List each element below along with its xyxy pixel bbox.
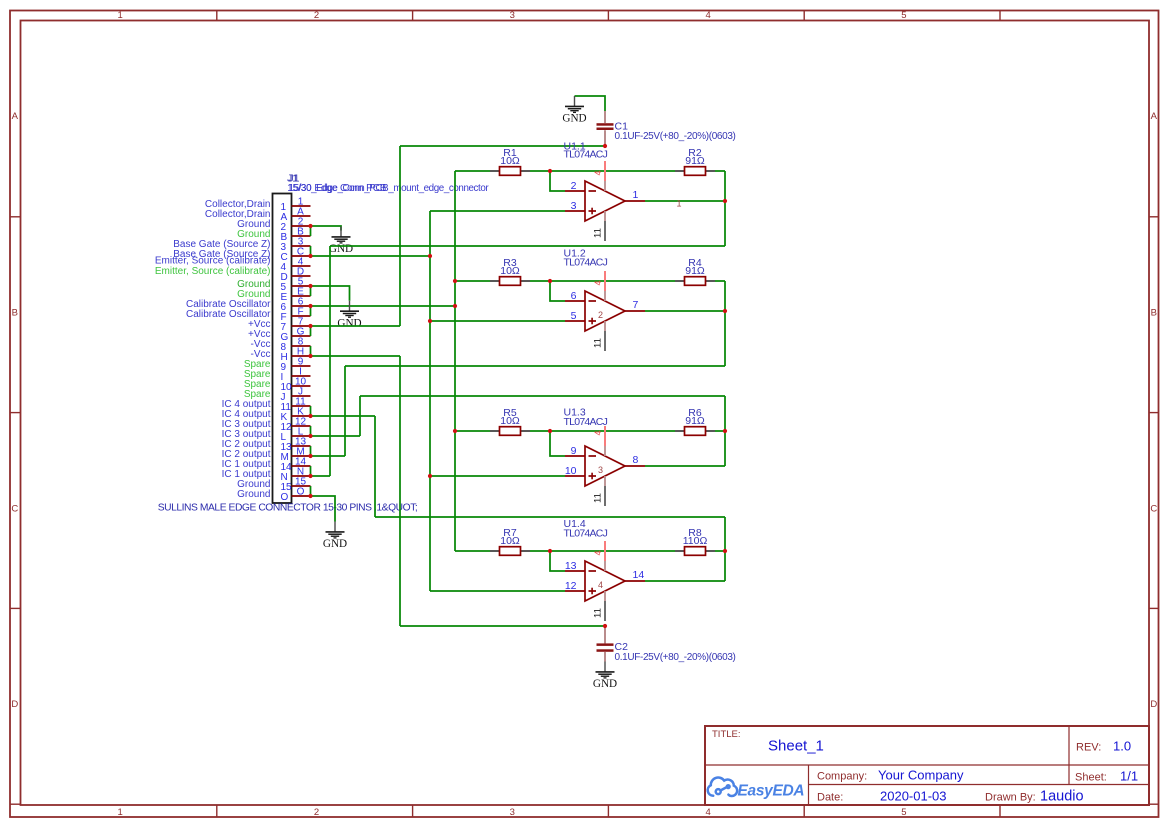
- wire U1.1 output: [645, 200, 725, 202]
- svg-text:Emitter, Source (calibrate): Emitter, Source (calibrate): [155, 256, 271, 267]
- svg-text:1/1: 1/1: [1120, 769, 1138, 784]
- svg-text:O: O: [297, 487, 305, 498]
- connector J1 pin 9: [281, 357, 311, 373]
- svg-text:4: 4: [593, 550, 603, 555]
- connector J1 pin F: [281, 307, 311, 323]
- wire R4 right: [715, 280, 725, 282]
- svg-text:91Ω: 91Ω: [685, 155, 705, 167]
- wire R3 row left: [455, 280, 490, 282]
- wire pin6 east: [311, 305, 456, 307]
- wire to U1.3 noninverting input: [430, 475, 565, 477]
- wire R2 right: [715, 170, 725, 172]
- wire pinM east: [311, 455, 346, 457]
- svg-text:GND: GND: [323, 538, 347, 550]
- resistor R8: [675, 547, 715, 556]
- svg-text:Your Company: Your Company: [878, 768, 964, 783]
- junction: [548, 549, 552, 553]
- wire pin5-pinE: [310, 286, 312, 296]
- svg-text:GND: GND: [329, 243, 353, 255]
- wire U1.2 output: [645, 310, 725, 312]
- wire pin11-pinK: [310, 406, 312, 416]
- junction: [308, 434, 312, 438]
- svg-text:5: 5: [571, 310, 577, 322]
- capacitor C2: [597, 626, 614, 662]
- junction: [548, 429, 552, 433]
- wire R7 row left: [455, 550, 490, 552]
- junction: [308, 224, 312, 228]
- wire pin12-pinL: [310, 426, 312, 436]
- connector J1 pin A: [281, 207, 311, 223]
- wire to U1.1 inverting input: [550, 171, 565, 191]
- svg-text:2: 2: [314, 10, 319, 21]
- svg-text:91Ω: 91Ω: [685, 265, 705, 277]
- ground GND1 (pins 2/B): [332, 227, 351, 243]
- U1.3 pin 11 (V-): [604, 476, 606, 506]
- connector J1 pin 13: [281, 437, 311, 453]
- svg-text:5: 5: [901, 10, 906, 21]
- wire pin14-pinN: [310, 466, 312, 476]
- svg-text:9: 9: [571, 445, 577, 457]
- wire pin13-pinM: [310, 446, 312, 456]
- wire feedback U1.2: [724, 281, 726, 366]
- wire R5 row left: [455, 430, 490, 432]
- wire R6 right: [715, 430, 725, 432]
- svg-text:5: 5: [901, 807, 906, 818]
- ruler tick bottom: [216, 805, 218, 817]
- ruler tick right: [1149, 803, 1159, 805]
- connector J1 pin 1: [281, 197, 311, 213]
- connector J1 pin 5: [281, 277, 311, 293]
- junction: [308, 284, 312, 288]
- junction: [603, 624, 607, 628]
- ruler tick left: [10, 216, 21, 218]
- ground GND3 (pins 15/O): [326, 522, 345, 538]
- ruler tick top: [607, 11, 609, 21]
- ground GND2 (pins 5/E): [340, 301, 359, 317]
- connector J1 pin G: [281, 327, 311, 343]
- svg-text:O: O: [281, 492, 289, 503]
- U1.4 pin 11 (V-): [604, 591, 606, 621]
- ruler tick top: [412, 11, 414, 21]
- svg-text:110Ω: 110Ω: [683, 535, 708, 547]
- svg-text:1: 1: [118, 10, 123, 21]
- junction: [548, 279, 552, 283]
- junction: [603, 144, 607, 148]
- svg-text:10Ω: 10Ω: [500, 155, 520, 167]
- wire to U1.2 noninverting input: [430, 320, 565, 322]
- svg-text:TITLE:: TITLE:: [712, 729, 741, 740]
- svg-text:SULLINS MALE EDGE CONNECTOR 15: SULLINS MALE EDGE CONNECTOR 15-30 PINS .…: [158, 503, 418, 514]
- svg-text:91Ω: 91Ω: [685, 415, 705, 427]
- svg-text:GND: GND: [562, 113, 586, 125]
- svg-text:TL074ACJ: TL074ACJ: [564, 257, 608, 269]
- U1.2 pin 4 (V+): [604, 271, 606, 301]
- junction: [428, 474, 432, 478]
- svg-text:10: 10: [565, 465, 577, 477]
- svg-text:4: 4: [705, 807, 710, 818]
- svg-text:Sheet:: Sheet:: [1075, 772, 1107, 784]
- svg-text:2: 2: [571, 180, 577, 192]
- svg-text:0.1UF-25V(+80_-20%)(0603): 0.1UF-25V(+80_-20%)(0603): [615, 652, 736, 663]
- svg-text:GND: GND: [593, 678, 617, 690]
- svg-text:TL074ACJ: TL074ACJ: [564, 149, 608, 161]
- wire pinO to GND: [311, 496, 336, 522]
- junction: [723, 429, 727, 433]
- svg-text:3: 3: [510, 10, 515, 21]
- svg-text:1: 1: [633, 189, 639, 201]
- svg-text:A: A: [12, 111, 19, 122]
- junction: [308, 454, 312, 458]
- wire to U1.4 noninverting input: [430, 590, 565, 592]
- junction: [308, 494, 312, 498]
- svg-text:4: 4: [593, 280, 603, 285]
- connector J1 pin C: [281, 247, 311, 263]
- resistor R7: [490, 547, 530, 556]
- connector J1 pin E: [281, 287, 311, 303]
- connector J1 pin I: [281, 367, 311, 383]
- wire U1.4 output: [645, 580, 725, 582]
- svg-text:REV:: REV:: [1076, 742, 1101, 754]
- wire feedback U1.4: [724, 517, 726, 581]
- capacitor C1: [597, 111, 614, 146]
- wire R1-R2: [530, 170, 675, 172]
- wire -Vcc to C2: [400, 625, 605, 627]
- svg-text:Emitter, Source (calibrate): Emitter, Source (calibrate): [155, 266, 271, 277]
- resistor R2: [675, 167, 715, 176]
- svg-text:8: 8: [633, 454, 639, 466]
- connector J1 pin L: [281, 427, 311, 443]
- ruler tick top: [216, 11, 218, 21]
- connector J1 pin 4: [281, 257, 311, 273]
- resistor R5: [490, 427, 530, 436]
- junction: [453, 304, 457, 308]
- wire to U1.3 inverting input: [550, 431, 565, 456]
- connector J1 pin 10: [281, 377, 311, 393]
- wire U1.3 output return: [360, 395, 725, 397]
- svg-text:Company:: Company:: [817, 771, 867, 783]
- junction: [308, 254, 312, 258]
- U1.4 pin 4 (V+): [604, 541, 606, 571]
- ruler tick right: [1149, 412, 1159, 414]
- svg-text:4: 4: [593, 170, 603, 175]
- svg-text:3: 3: [571, 200, 577, 212]
- U1.2 pin 11 (V-): [604, 321, 606, 351]
- svg-text:GND: GND: [337, 317, 361, 329]
- svg-text:1: 1: [677, 199, 682, 209]
- junction: [453, 279, 457, 283]
- svg-text:C: C: [11, 503, 18, 514]
- connector J1 pin K: [281, 407, 311, 423]
- junction: [308, 324, 312, 328]
- resistor R6: [675, 427, 715, 436]
- svg-text:10Ω: 10Ω: [500, 535, 520, 547]
- svg-text:B: B: [12, 307, 18, 318]
- connector J1 pin H: [281, 347, 311, 363]
- junction: [428, 254, 432, 258]
- svg-text:12: 12: [565, 580, 577, 592]
- ruler tick right: [1149, 216, 1159, 218]
- connector J1 pin O: [281, 487, 311, 503]
- ground GND (C2): [596, 662, 615, 678]
- svg-text:3: 3: [510, 807, 515, 818]
- wire U1.2 output return: [345, 365, 725, 367]
- connector J1 pin M: [281, 447, 311, 463]
- svg-text:Sheet_1: Sheet_1: [768, 738, 824, 755]
- wire pinC east: [311, 255, 431, 257]
- U1.1 pin 4 (V+): [604, 161, 606, 191]
- connector J1 pin N: [281, 467, 311, 483]
- wire U1.3 output: [645, 465, 725, 467]
- wire vertical IC2-out: [344, 366, 346, 456]
- wire +Vcc to C1: [400, 145, 605, 147]
- connector J1 pin 2: [281, 217, 311, 233]
- wire vertical input bus: [454, 171, 456, 551]
- wire pin6-pinF: [310, 306, 312, 316]
- wire vertical IC1-out: [329, 246, 331, 476]
- junction: [723, 309, 727, 313]
- ruler tick top: [999, 11, 1001, 21]
- svg-text:4: 4: [705, 10, 710, 21]
- svg-text:D: D: [11, 699, 18, 710]
- EasyEDA logo: [708, 778, 737, 796]
- ruler tick left: [10, 607, 21, 609]
- wire pin7-pinG: [310, 326, 312, 336]
- wire to U1.2 inverting input: [550, 281, 565, 301]
- wire pin8-pinH: [310, 346, 312, 356]
- wire R7-R8: [530, 550, 675, 552]
- svg-text:C: C: [1150, 503, 1157, 514]
- wire pin15-pinO: [310, 486, 312, 496]
- connector J1 pin D: [281, 267, 311, 283]
- junction: [548, 169, 552, 173]
- connector J1 pin 12: [281, 417, 311, 433]
- svg-text:TL074ACJ: TL074ACJ: [564, 528, 608, 540]
- wire vertical IC3-out: [359, 396, 361, 436]
- junction: [723, 549, 727, 553]
- svg-text:4: 4: [598, 580, 603, 590]
- wire to U1.1 noninverting input: [430, 210, 565, 212]
- connector J1 pin 3: [281, 237, 311, 253]
- svg-text:2: 2: [314, 807, 319, 818]
- wire U1.1 output return: [330, 245, 725, 247]
- wire R8 right: [715, 550, 725, 552]
- wire pin7 +Vcc east: [311, 325, 401, 327]
- op-amp U1.1: [565, 181, 645, 221]
- connector J1 pin 6: [281, 297, 311, 313]
- svg-text:0.1UF-25V(+80_-20%)(0603): 0.1UF-25V(+80_-20%)(0603): [615, 131, 736, 142]
- ruler tick bottom: [999, 805, 1001, 817]
- svg-text:1.0: 1.0: [1113, 739, 1131, 754]
- wire pinH -Vcc east: [311, 355, 401, 357]
- svg-text:13: 13: [565, 560, 577, 572]
- title block: [705, 726, 1149, 805]
- svg-text:15/30_Edge_Conn_PCB_mount_edge: 15/30_Edge_Conn_PCB_mount_edge_connector: [289, 183, 490, 194]
- connector J1 pin J: [281, 387, 311, 403]
- wire feedback U1.3: [724, 396, 726, 466]
- svg-text:1audio: 1audio: [1040, 789, 1084, 805]
- svg-text:6: 6: [571, 290, 577, 302]
- connector J1 pin B: [281, 227, 311, 243]
- svg-text:7: 7: [633, 299, 639, 311]
- svg-text:A: A: [1151, 111, 1158, 122]
- op-amp U1.3: [565, 446, 645, 486]
- wire pin2-pinB: [310, 226, 312, 236]
- svg-text:2020-01-03: 2020-01-03: [880, 789, 947, 804]
- connector J1 body: [273, 194, 292, 504]
- svg-text:10Ω: 10Ω: [500, 415, 520, 427]
- wire pin3-pinC: [310, 246, 312, 256]
- wire feedback U1.1: [724, 171, 726, 246]
- wire pinL east: [311, 435, 361, 437]
- wire pin5 to GND: [311, 286, 350, 301]
- wire to U1.4 inverting input: [550, 551, 565, 571]
- wire U1.4 output return: [375, 516, 725, 518]
- svg-text:11: 11: [593, 228, 604, 238]
- connector J1 pin 15: [281, 477, 311, 493]
- ruler tick left: [10, 412, 21, 414]
- svg-text:1: 1: [118, 807, 123, 818]
- svg-text:Date:: Date:: [817, 792, 843, 804]
- junction: [308, 474, 312, 478]
- svg-text:11: 11: [593, 608, 604, 618]
- junction: [723, 199, 727, 203]
- resistor R1: [490, 167, 530, 176]
- svg-text:2: 2: [598, 310, 603, 320]
- ruler tick bottom: [412, 805, 414, 817]
- resistor R4: [675, 277, 715, 286]
- connector J1 pin 7: [281, 317, 311, 333]
- wire C1 to GND: [575, 96, 606, 111]
- wire vertical IC4-out: [374, 416, 376, 517]
- ruler tick bottom: [607, 805, 609, 817]
- op-amp U1.2: [565, 291, 645, 331]
- U1.1 pin 11 (V-): [604, 211, 606, 241]
- wire vertical -Vcc: [399, 356, 401, 626]
- svg-text:10Ω: 10Ω: [500, 265, 520, 277]
- wire R5-R6: [530, 430, 675, 432]
- wire pin2 to GND: [311, 226, 342, 231]
- op-amp U1.4: [565, 561, 645, 601]
- connector J1 pin 8: [281, 337, 311, 353]
- svg-text:EasyEDA: EasyEDA: [738, 783, 805, 800]
- svg-text:11: 11: [593, 338, 604, 348]
- ground GND (C1): [565, 96, 584, 112]
- svg-text:TL074ACJ: TL074ACJ: [564, 416, 608, 428]
- wire vertical noninverting bus: [429, 211, 431, 591]
- svg-text:B: B: [1151, 307, 1157, 318]
- svg-text:3: 3: [598, 465, 603, 475]
- wire pinK east: [311, 415, 376, 417]
- wire R3-R4: [530, 280, 675, 282]
- ruler tick left: [10, 803, 21, 805]
- svg-text:D: D: [1150, 699, 1157, 710]
- svg-text:Ground: Ground: [237, 489, 270, 500]
- svg-text:14: 14: [633, 569, 645, 581]
- ruler tick right: [1149, 607, 1159, 609]
- wire vertical +Vcc: [399, 146, 401, 326]
- ruler tick top: [803, 11, 805, 21]
- junction: [453, 429, 457, 433]
- svg-text:11: 11: [593, 493, 604, 503]
- junction: [308, 354, 312, 358]
- connector J1 pin 11: [281, 397, 311, 413]
- junction: [308, 304, 312, 308]
- svg-text:Drawn By:: Drawn By:: [985, 792, 1036, 804]
- svg-text:4: 4: [593, 430, 603, 435]
- junction: [308, 414, 312, 418]
- resistor R3: [490, 277, 530, 286]
- U1.3 pin 4 (V+): [604, 426, 606, 456]
- ruler tick bottom: [803, 805, 805, 817]
- junction: [428, 319, 432, 323]
- wire pinN east: [311, 475, 331, 477]
- wire R1 row left: [455, 170, 490, 172]
- connector J1 pin 14: [281, 457, 311, 473]
